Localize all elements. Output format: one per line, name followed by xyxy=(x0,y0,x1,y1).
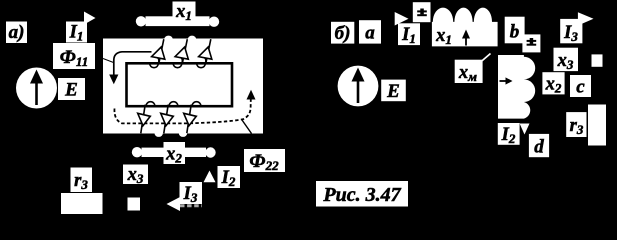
node b xyxy=(505,17,525,44)
node square (right) xyxy=(592,54,603,66)
node c xyxy=(570,75,591,98)
core white background xyxy=(103,39,263,134)
coil x2 terminal left xyxy=(132,147,142,157)
svg-text:b: b xyxy=(510,22,520,43)
label E (left) xyxy=(58,78,85,101)
svg-text:c: c xyxy=(576,77,585,98)
current I3 underline dashes xyxy=(180,204,202,207)
current I2 label (left) xyxy=(218,166,241,189)
current I3 arrow (right) xyxy=(578,12,594,25)
current I2 label (right) xyxy=(498,123,520,146)
node d xyxy=(529,134,549,158)
winding x1 turn 2 xyxy=(173,39,188,67)
xM pointer line xyxy=(477,54,491,66)
svg-text:d: d xyxy=(534,137,544,158)
inductor x2 (right, vertical) xyxy=(498,55,535,119)
current I1 label (right) xyxy=(398,23,420,46)
svg-text:a: a xyxy=(365,23,375,44)
coil x1 terminal right xyxy=(209,17,219,27)
polarity dot box 2 xyxy=(522,34,540,52)
current I3 label (left) xyxy=(180,182,203,205)
label x1 xyxy=(173,2,196,24)
label x2 (right) xyxy=(542,72,564,95)
flux label Phi22 xyxy=(244,149,285,173)
winding x2 turn 3 xyxy=(184,102,201,133)
current I3 arrow (left) xyxy=(167,197,181,211)
svg-text:E: E xyxy=(64,80,78,101)
core rectangle xyxy=(127,63,233,106)
node square below x3 xyxy=(128,198,141,211)
winding x2 bottom bumps xyxy=(155,133,163,137)
node a xyxy=(359,20,381,43)
resistor r3 body (left) xyxy=(61,193,103,214)
flux label Phi11 xyxy=(53,43,95,69)
flux line Phi11 left stub xyxy=(103,59,114,63)
coil x2 terminal right xyxy=(205,147,215,157)
label E (right) xyxy=(381,80,406,102)
resistor r3 label (right) xyxy=(566,112,586,137)
polarity dot box 1 xyxy=(413,2,431,22)
inductor x1 (right) xyxy=(432,8,498,47)
source E (left) xyxy=(16,68,57,109)
winding x1 turn 1 xyxy=(150,39,165,67)
resistor r3 body (right) xyxy=(588,105,606,146)
current I1 arrow xyxy=(84,12,96,25)
label x3 (left) xyxy=(123,165,148,187)
label x2 xyxy=(164,142,186,166)
resistor r3 label (left) xyxy=(71,168,93,193)
current I1 label xyxy=(66,22,87,44)
winding x1 turn 3 xyxy=(197,39,212,67)
wire to x2 right terminal xyxy=(242,120,252,134)
svg-text:а): а) xyxy=(9,22,25,43)
mutual inductance xM label xyxy=(455,60,483,84)
coil x2 bar xyxy=(142,148,207,157)
label а) xyxy=(6,22,27,44)
winding x1 top bumps xyxy=(164,36,172,40)
current I2 arrow (left) xyxy=(204,171,216,183)
winding x2 turn 2 xyxy=(161,102,178,133)
svg-text:б): б) xyxy=(335,23,351,44)
flux line Phi22 dashed xyxy=(114,100,250,124)
figure caption Рис. 3.47 xyxy=(316,181,408,207)
svg-text:Рис. 3.47: Рис. 3.47 xyxy=(322,184,401,206)
coil x1 bar xyxy=(146,16,210,26)
coil x1 terminal left xyxy=(136,16,146,26)
current I1 arrow (right) xyxy=(395,12,409,26)
current I3 label (right) xyxy=(560,19,582,44)
label б) xyxy=(331,22,354,44)
winding x2 turn 1 xyxy=(138,102,155,133)
current I2 arrow (right) xyxy=(520,124,530,135)
source E (right) xyxy=(338,66,379,107)
label x3 (right) xyxy=(554,48,579,72)
svg-text:E: E xyxy=(386,81,400,102)
flux line Phi11 path xyxy=(114,52,152,79)
